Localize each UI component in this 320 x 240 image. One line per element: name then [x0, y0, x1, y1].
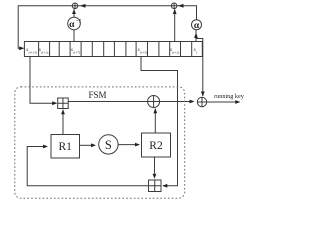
- svg-text:running key: running key: [214, 93, 245, 100]
- svg-text:R1: R1: [58, 141, 72, 153]
- svg-text:(t+5): (t+5): [140, 51, 147, 55]
- svg-text:−1: −1: [76, 18, 82, 24]
- svg-text:R2: R2: [149, 140, 163, 152]
- svg-text:α: α: [69, 20, 75, 30]
- svg-text:S: S: [105, 138, 112, 152]
- svg-text:α: α: [194, 21, 200, 31]
- svg-text:(t+11): (t+11): [41, 51, 49, 55]
- svg-text:(t+7): (t+7): [73, 51, 80, 55]
- svg-text:FSM: FSM: [88, 90, 106, 100]
- svg-text:(t+15): (t+15): [29, 51, 38, 55]
- svg-text:t: t: [196, 51, 197, 55]
- svg-text:(t+2): (t+2): [172, 51, 179, 55]
